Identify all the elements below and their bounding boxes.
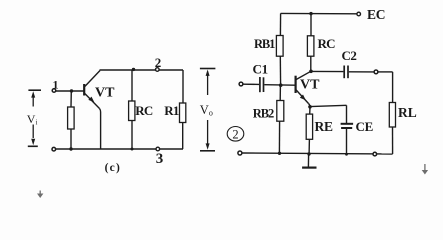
svg-text:RE: RE [315,119,334,134]
svg-text:1: 1 [53,78,59,92]
svg-text:RC: RC [318,36,336,51]
svg-text:RC: RC [135,103,153,118]
svg-text:VT: VT [300,78,320,93]
svg-text:2: 2 [155,55,162,70]
svg-text:RB2: RB2 [253,107,274,121]
svg-text:(c): (c) [105,162,121,174]
svg-text:3: 3 [156,151,164,167]
svg-text:Vo: Vo [200,103,213,118]
svg-text:RB1: RB1 [254,37,275,51]
svg-text:RL: RL [398,105,417,120]
svg-text:EC: EC [367,7,385,22]
svg-text:VT: VT [95,86,115,101]
svg-text:2: 2 [232,128,238,142]
svg-text:R1: R1 [164,103,179,118]
svg-text:Vi: Vi [27,112,38,126]
svg-text:C2: C2 [342,48,357,63]
svg-text:CE: CE [356,119,373,134]
svg-text:C1: C1 [253,62,268,77]
